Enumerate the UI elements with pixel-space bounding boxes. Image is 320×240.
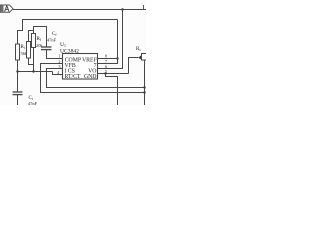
wire pin6 VO: [98, 10, 123, 69]
capacitor Ct: [13, 72, 38, 107]
wire pin4 RT/CT: [53, 72, 63, 75]
wire Rs down: [144, 60, 146, 105]
svg-text:47nF: 47nF: [47, 38, 57, 43]
svg-text:8: 8: [105, 54, 107, 59]
svg-text:Rf: Rf: [37, 37, 42, 42]
wire left bus: [18, 71, 53, 73]
wire pin3 CS net: [47, 69, 145, 88]
resistor R2: [27, 31, 34, 65]
junction Rf bottom: [32, 70, 34, 72]
svg-text:UC3842: UC3842: [60, 49, 79, 55]
svg-text:Cf: Cf: [52, 32, 57, 37]
off-page tick right: [143, 5, 145, 10]
svg-text:RT/CT: RT/CT: [65, 74, 82, 80]
junction pin8 rail: [116, 57, 118, 59]
wire pin2 VFB net: [41, 64, 145, 93]
wire R1 bottom: [17, 60, 19, 72]
svg-text:Rt: Rt: [21, 45, 25, 50]
wire pin8 VREF: [98, 58, 118, 60]
junction R1/Ct: [16, 70, 18, 72]
svg-text:47nF: 47nF: [28, 101, 38, 105]
capacitor Cf: [41, 32, 57, 50]
wire Cf to pin1 COMP: [47, 50, 63, 59]
wire GND down: [106, 74, 118, 106]
resistor Rs: [129, 47, 148, 74]
resistor Rf: [32, 34, 36, 48]
wire pin7 VCC: [98, 20, 118, 64]
svg-text:Rs: Rs: [136, 47, 141, 52]
svg-text:4: 4: [57, 70, 59, 75]
wire rail 2 to R1: [18, 20, 118, 45]
wire compensation loop top: [34, 27, 47, 48]
svg-text:GND: GND: [84, 74, 97, 80]
junction CS net right: [143, 86, 145, 88]
svg-text:3: 3: [59, 64, 61, 69]
svg-text:1: 1: [59, 54, 61, 59]
net flag A: [0, 5, 13, 12]
junction VFB net right: [143, 91, 145, 93]
wire Rf bottom: [33, 48, 35, 72]
wire pin5 GND: [98, 73, 129, 75]
resistor R1: [16, 44, 20, 60]
junction GND: [104, 72, 106, 74]
junction top rail: [121, 8, 123, 10]
IC U1 UC3842: [57, 42, 107, 80]
wire top rail net A: [13, 9, 146, 11]
